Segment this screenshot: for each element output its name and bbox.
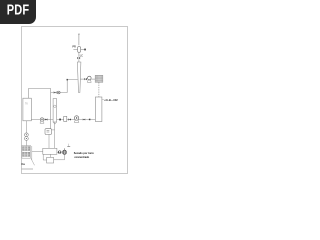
valve K4 <box>68 118 71 120</box>
svg-text:Ca: Ca <box>21 162 25 166</box>
valve K7 <box>58 151 61 154</box>
wire downcomer <box>50 93 52 129</box>
valve K2 <box>54 91 57 93</box>
svg-text:concentrado: concentrado <box>74 156 89 159</box>
vessel V1 <box>78 47 81 53</box>
table TB1 <box>22 145 31 158</box>
pump P4 <box>64 148 66 150</box>
fitting F2 <box>59 119 61 121</box>
wire table right riser <box>31 146 33 160</box>
node J1 <box>67 79 69 81</box>
wire HX to V2 dashed <box>98 82 100 97</box>
svg-text:LC: LC <box>80 55 83 57</box>
wire V1 left <box>73 49 77 51</box>
wire R1 drain left <box>43 154 46 160</box>
wire pump to HX <box>91 78 95 80</box>
fitting F3 <box>89 119 91 121</box>
wire V1 bottom <box>78 52 80 62</box>
label tick <box>67 146 70 148</box>
dryer R1 <box>43 148 57 154</box>
wire baseline <box>21 168 33 170</box>
valve K3 <box>45 118 48 120</box>
wire dashed drop <box>68 144 70 147</box>
wire V1 right <box>81 49 85 51</box>
pump P1 <box>40 118 43 121</box>
svg-text:PR: PR <box>72 45 76 48</box>
valve K1 <box>77 57 80 59</box>
fitting F1 <box>84 49 86 51</box>
svg-text:Secado por torre: Secado por torre <box>74 152 95 155</box>
filter FL1 <box>64 116 67 121</box>
vessel S1 <box>53 99 57 122</box>
column C1 <box>77 62 81 93</box>
valve K5 <box>83 119 85 121</box>
wire V2 label leader <box>102 99 104 101</box>
wire R1 outlet <box>57 151 58 153</box>
wire feed top <box>78 34 80 45</box>
tank T1 <box>23 98 31 121</box>
heat exchanger HX1 <box>95 75 103 82</box>
wire B2 loop <box>54 155 65 160</box>
svg-text:+N–B—002: +N–B—002 <box>104 98 118 102</box>
vessel V2 <box>95 97 102 122</box>
wire R1 down <box>49 154 51 157</box>
page sheet <box>21 26 128 174</box>
svg-text:TK: TK <box>25 103 28 105</box>
wire recycle loop <box>29 88 54 98</box>
pump P2 <box>74 116 78 120</box>
wire diagonal <box>31 159 35 166</box>
vessel B2 <box>47 157 54 163</box>
wire column outlet <box>80 78 84 80</box>
valve K6 <box>84 78 87 80</box>
wire main process line <box>31 119 95 121</box>
PDF badge <box>0 0 36 24</box>
pump P3 <box>88 76 92 80</box>
wire B1 link <box>52 129 55 131</box>
wire B1 to R1 <box>48 134 50 148</box>
pump M1 <box>57 91 60 94</box>
pump P5 stack <box>25 121 29 146</box>
wire S1 to R1 <box>54 122 56 148</box>
vessel B1 <box>45 129 52 135</box>
wire table to R1 <box>32 150 43 152</box>
wire column to junction <box>60 80 78 93</box>
